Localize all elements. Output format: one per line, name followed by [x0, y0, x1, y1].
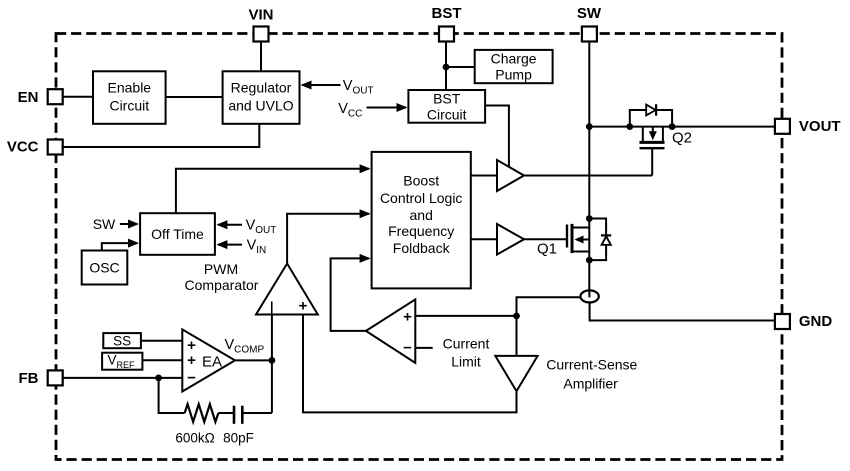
svg-text:SW: SW	[577, 5, 602, 22]
svg-text:Regulator: Regulator	[231, 80, 292, 96]
svg-text:Control Logic: Control Logic	[380, 190, 463, 206]
svg-text:and UVLO: and UVLO	[228, 98, 293, 114]
svg-text:OSC: OSC	[89, 260, 119, 276]
svg-text:EN: EN	[18, 89, 39, 106]
svg-text:Comparator: Comparator	[185, 277, 259, 293]
svg-text:+: +	[187, 352, 196, 369]
svg-text:Amplifier: Amplifier	[563, 376, 618, 392]
svg-text:Current-Sense: Current-Sense	[546, 357, 637, 373]
svg-text:Limit: Limit	[451, 353, 481, 369]
svg-text:600kΩ: 600kΩ	[175, 431, 214, 446]
svg-text:Circuit: Circuit	[427, 107, 467, 123]
svg-text:+: +	[299, 298, 308, 315]
svg-text:+: +	[403, 309, 412, 326]
svg-text:Current: Current	[443, 335, 490, 351]
svg-text:VOUT: VOUT	[799, 118, 841, 135]
svg-text:and: and	[410, 207, 433, 223]
svg-text:Circuit: Circuit	[109, 98, 149, 114]
svg-text:Charge: Charge	[491, 51, 537, 67]
svg-text:SS: SS	[113, 334, 131, 349]
svg-text:FB: FB	[19, 370, 39, 387]
svg-text:SW: SW	[93, 216, 116, 232]
svg-text:VIN: VIN	[248, 6, 273, 23]
svg-text:80pF: 80pF	[223, 431, 254, 446]
svg-text:|: |	[270, 300, 274, 314]
svg-text:GND: GND	[799, 313, 833, 330]
svg-text:Frequency: Frequency	[388, 223, 454, 239]
svg-text:PWM: PWM	[204, 261, 238, 277]
svg-text:EA: EA	[202, 354, 222, 371]
svg-text:Boost: Boost	[403, 172, 439, 188]
svg-text:Q2: Q2	[672, 129, 692, 146]
svg-text:VCC: VCC	[7, 139, 39, 156]
svg-text:Off Time: Off Time	[151, 226, 204, 242]
svg-text:BST: BST	[432, 5, 462, 22]
svg-text:Pump: Pump	[495, 67, 532, 83]
svg-text:Q1: Q1	[537, 240, 557, 257]
svg-text:−: −	[403, 340, 412, 357]
svg-text:Enable: Enable	[108, 80, 152, 96]
svg-text:Foldback: Foldback	[393, 240, 451, 256]
svg-text:BST: BST	[433, 91, 461, 107]
svg-text:−: −	[187, 369, 196, 386]
